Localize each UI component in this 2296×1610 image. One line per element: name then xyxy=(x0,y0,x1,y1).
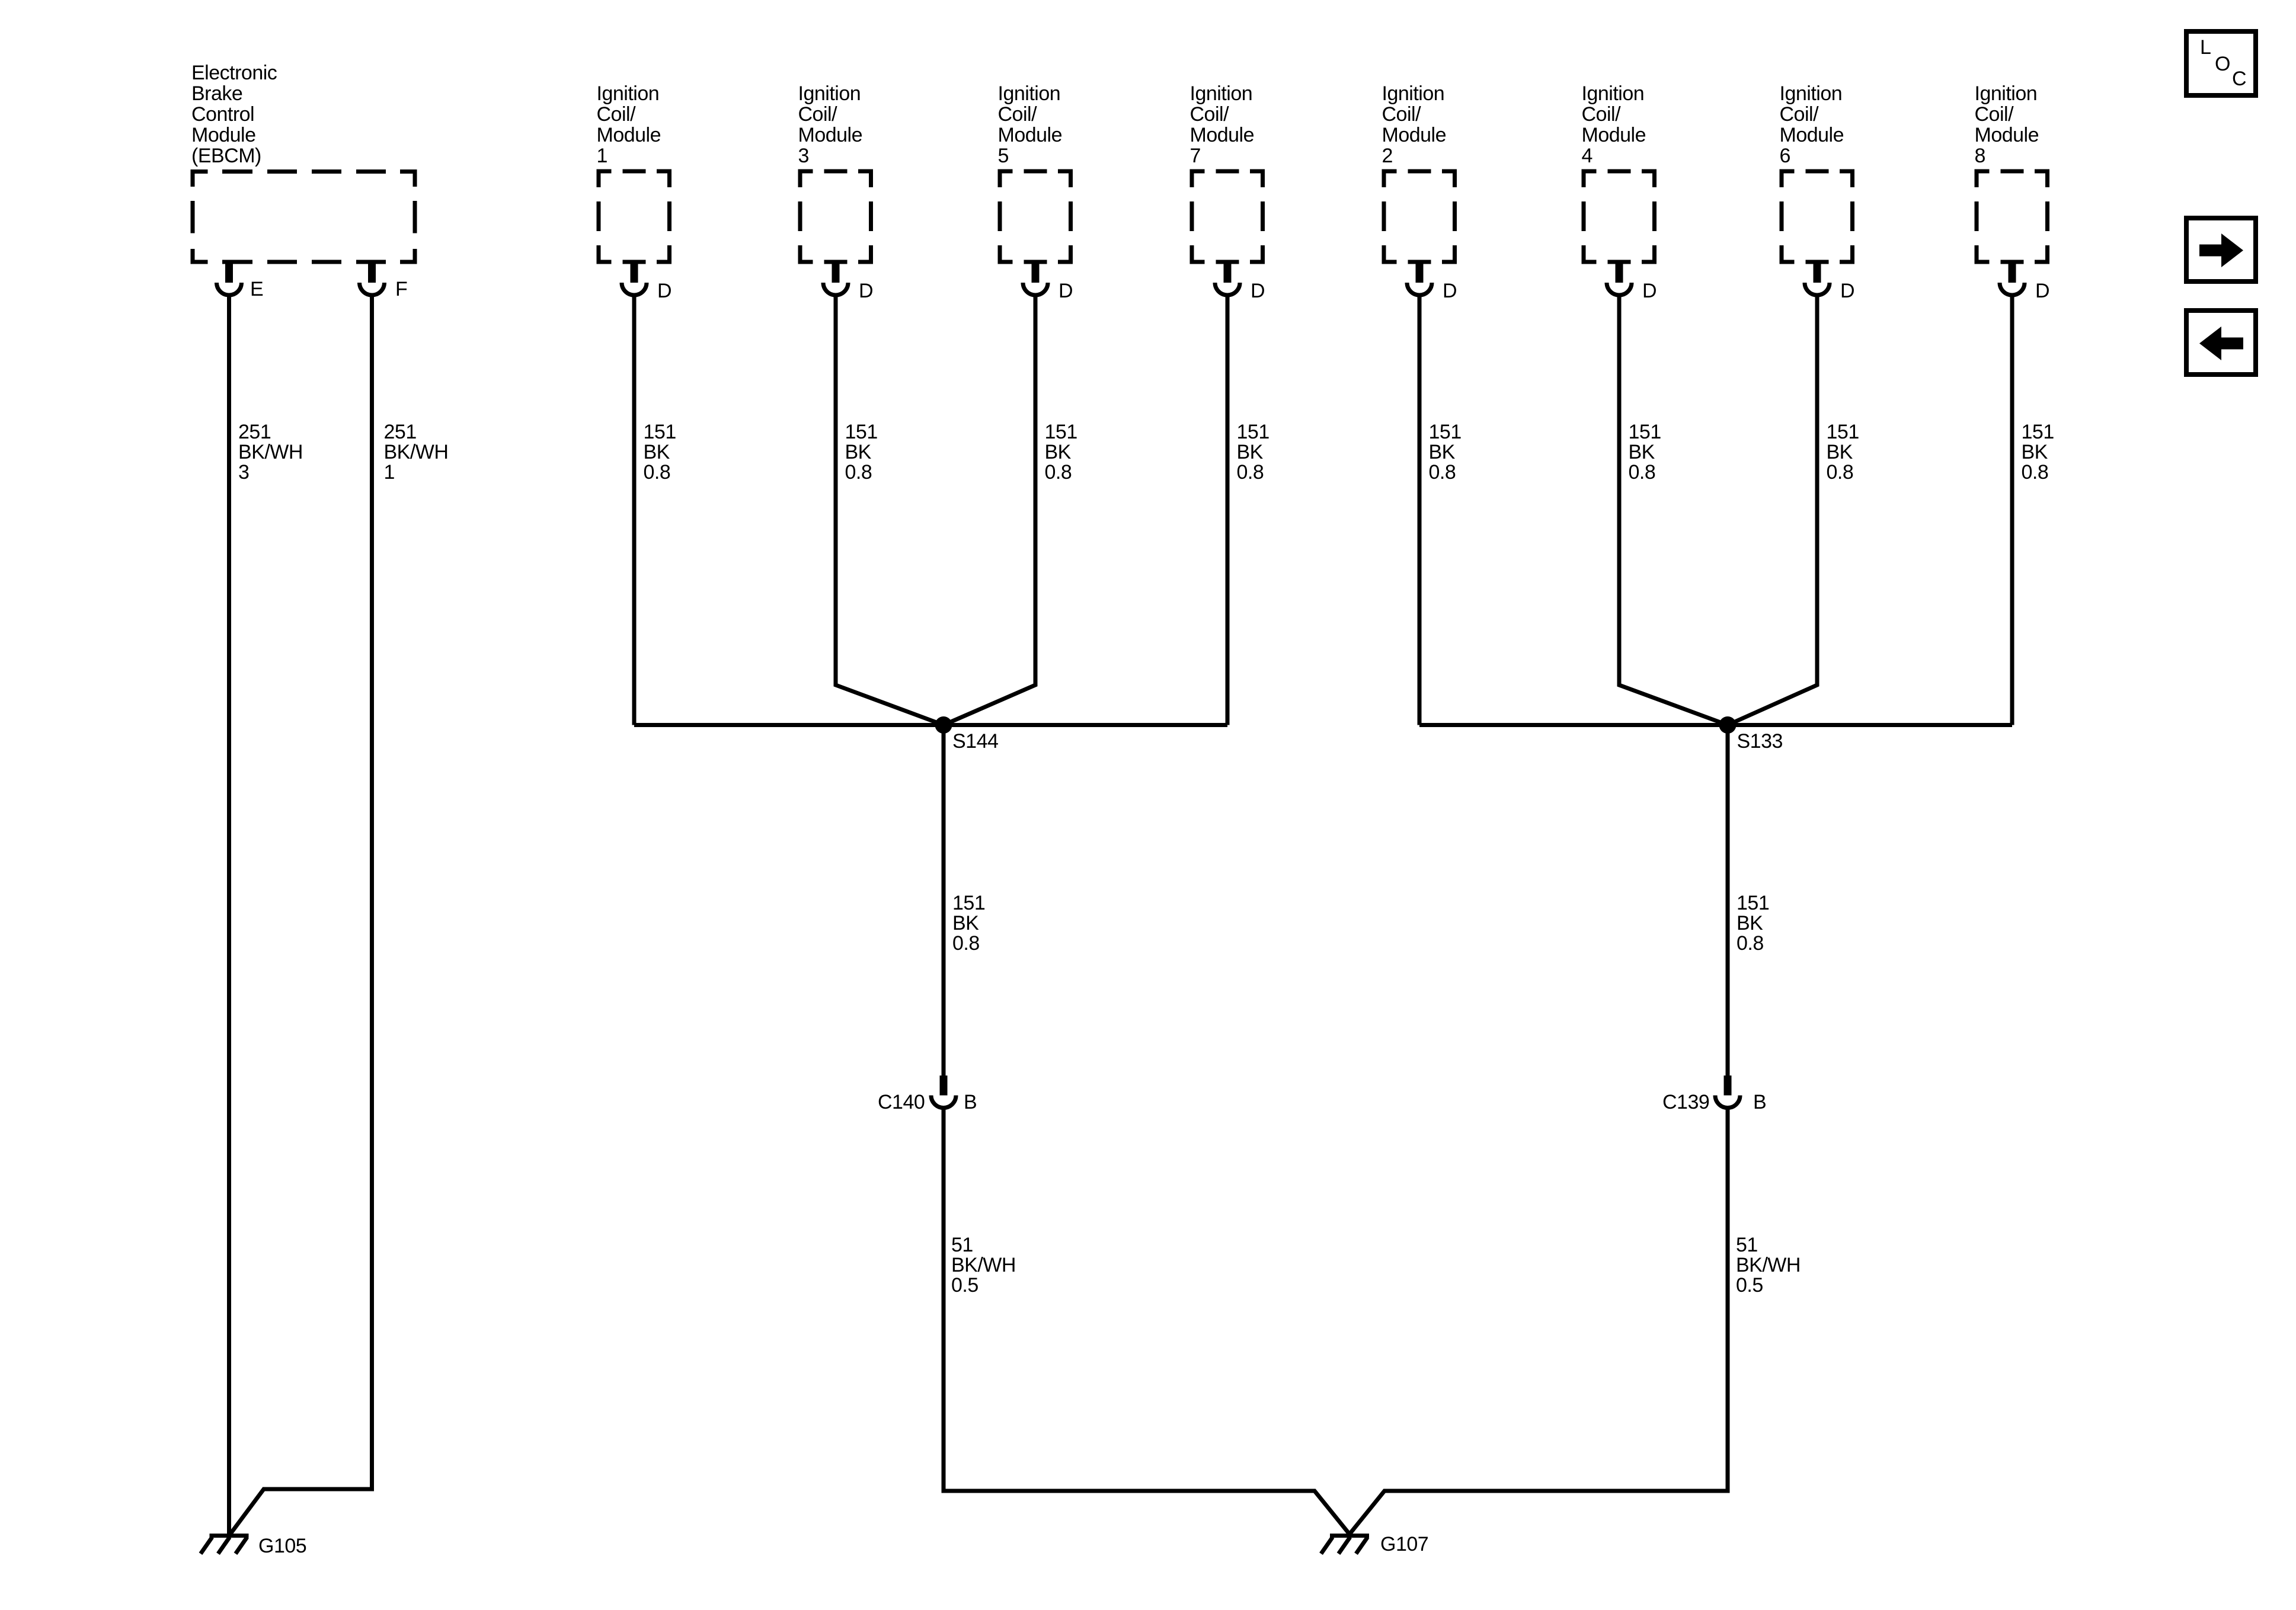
module Ignition Coil/Module 2 dashed box xyxy=(1382,169,1457,264)
wire label 51 BK/WH 0.5 (left) xyxy=(951,1234,1016,1297)
ground G107 symbol xyxy=(1321,1536,1369,1554)
svg-text:51: 51 xyxy=(1736,1234,1758,1256)
svg-text:BK/WH: BK/WH xyxy=(384,441,449,463)
wire 151 BK 0.8 from module 2 pin D xyxy=(1418,296,1422,725)
svg-text:Ignition: Ignition xyxy=(1190,82,1253,105)
wire label 151 BK 0.8 (S133-C139) xyxy=(1737,892,1769,955)
svg-text:C: C xyxy=(2232,68,2246,90)
svg-text:B: B xyxy=(1753,1091,1766,1113)
svg-text:51: 51 xyxy=(951,1234,973,1256)
wire 151 BK 0.8 from module 8 pin D xyxy=(2010,296,2014,725)
svg-text:151: 151 xyxy=(1045,421,1077,443)
svg-text:0.8: 0.8 xyxy=(644,461,671,484)
wire label 251 BK/WH 1 xyxy=(384,421,449,484)
wire label 151 BK 0.8 (module 5) xyxy=(1045,421,1077,484)
right arrow icon xyxy=(2199,233,2243,267)
wire 151 BK 0.8 from module 4 pin D to splice xyxy=(1619,296,1728,725)
svg-text:Ignition: Ignition xyxy=(1582,82,1645,105)
svg-text:2: 2 xyxy=(1382,145,1393,167)
connector C139 pin B xyxy=(1715,1076,1740,1108)
wire 251 BK/WH 1 from EBCM pin F to G105 xyxy=(230,296,372,1535)
wire 151 BK 0.8 from module 3 pin D to splice xyxy=(836,296,944,725)
svg-text:BK: BK xyxy=(845,441,872,463)
connector pin D of module 4 xyxy=(1607,260,1632,296)
svg-text:BK: BK xyxy=(1237,441,1264,463)
svg-text:6: 6 xyxy=(1780,145,1790,167)
svg-text:(EBCM): (EBCM) xyxy=(191,145,261,167)
svg-text:Ignition: Ignition xyxy=(597,82,660,105)
wire label 51 BK/WH 0.5 (right) xyxy=(1736,1234,1801,1297)
svg-text:5: 5 xyxy=(998,145,1009,167)
module Ignition Coil/Module 2 label xyxy=(1382,82,1447,167)
connector pin F xyxy=(360,260,385,296)
wire bus into splice S144 xyxy=(634,723,1227,727)
svg-text:151: 151 xyxy=(1629,421,1661,443)
svg-text:D: D xyxy=(2035,280,2049,302)
module Ignition Coil/Module 3 dashed box xyxy=(798,169,874,264)
svg-text:Coil/: Coil/ xyxy=(1975,103,2014,126)
wire label 151 BK 0.8 (module 1) xyxy=(644,421,676,484)
wire label 151 BK 0.8 (module 4) xyxy=(1629,421,1661,484)
svg-text:Coil/: Coil/ xyxy=(1190,103,1230,126)
svg-text:BK: BK xyxy=(644,441,670,463)
wire 151 BK 0.8 from module 7 pin D xyxy=(1226,296,1230,725)
svg-text:0.8: 0.8 xyxy=(952,932,980,955)
module Ignition Coil/Module 8 label xyxy=(1975,82,2039,167)
connector pin D of module 7 xyxy=(1215,260,1240,296)
connector pin E xyxy=(217,260,242,296)
svg-text:0.5: 0.5 xyxy=(1736,1274,1763,1297)
svg-text:BK: BK xyxy=(1429,441,1456,463)
connector pin D of module 8 xyxy=(2000,260,2025,296)
svg-text:D: D xyxy=(859,280,873,302)
svg-text:C140: C140 xyxy=(878,1091,925,1113)
svg-text:Module: Module xyxy=(798,124,863,146)
svg-text:151: 151 xyxy=(952,892,985,914)
svg-text:S144: S144 xyxy=(952,730,998,753)
svg-text:D: D xyxy=(1443,280,1457,302)
module Ignition Coil/Module 4 label xyxy=(1582,82,1646,167)
svg-text:151: 151 xyxy=(644,421,676,443)
wire bus into splice S133 xyxy=(1419,723,2012,727)
splice S144 junction dot xyxy=(935,716,952,734)
module Ignition Coil/Module 5 dashed box xyxy=(998,169,1073,264)
svg-text:E: E xyxy=(250,278,263,300)
svg-text:BK: BK xyxy=(2022,441,2048,463)
svg-text:Module: Module xyxy=(597,124,661,146)
svg-text:0.8: 0.8 xyxy=(1827,461,1854,484)
svg-text:C139: C139 xyxy=(1662,1091,1709,1113)
svg-text:Module: Module xyxy=(1780,124,1844,146)
svg-text:BK: BK xyxy=(1737,912,1763,934)
LOC legend letters xyxy=(2200,36,2246,90)
svg-text:0.8: 0.8 xyxy=(1629,461,1656,484)
connector pin D of module 1 xyxy=(622,260,647,296)
svg-text:7: 7 xyxy=(1190,145,1201,167)
svg-text:Module: Module xyxy=(1975,124,2039,146)
module Ignition Coil/Module 6 dashed box xyxy=(1780,169,1855,264)
svg-text:151: 151 xyxy=(1237,421,1269,443)
svg-text:0.8: 0.8 xyxy=(1429,461,1456,484)
svg-text:BK: BK xyxy=(1045,441,1072,463)
module EBCM dashed box xyxy=(191,169,417,264)
svg-text:BK: BK xyxy=(1827,441,1853,463)
svg-text:Coil/: Coil/ xyxy=(1582,103,1622,126)
module Ignition Coil/Module 7 dashed box xyxy=(1190,169,1265,264)
module Ignition Coil/Module 8 dashed box xyxy=(1975,169,2050,264)
svg-text:0.8: 0.8 xyxy=(845,461,872,484)
LOC legend box xyxy=(2186,31,2256,95)
svg-text:BK/WH: BK/WH xyxy=(1736,1254,1801,1276)
module Ignition Coil/Module 7 label xyxy=(1190,82,1255,167)
connector pin D of module 5 xyxy=(1023,260,1048,296)
module Ignition Coil/Module 1 label xyxy=(597,82,661,167)
splice S133 junction dot xyxy=(1719,716,1737,734)
wire 151 BK 0.8 from S144 to C140 xyxy=(942,725,946,1076)
svg-text:0.5: 0.5 xyxy=(951,1274,978,1297)
svg-text:0.8: 0.8 xyxy=(1237,461,1264,484)
wire 151 BK 0.8 from module 5 pin D to splice xyxy=(944,296,1035,725)
svg-text:Ignition: Ignition xyxy=(1780,82,1843,105)
svg-text:Electronic: Electronic xyxy=(191,62,277,84)
svg-text:L: L xyxy=(2200,36,2211,59)
svg-text:BK: BK xyxy=(1629,441,1655,463)
svg-text:1: 1 xyxy=(597,145,607,167)
connector pin D of module 6 xyxy=(1805,260,1830,296)
svg-text:251: 251 xyxy=(384,421,417,443)
connector pin D of module 3 xyxy=(823,260,848,296)
svg-text:Control: Control xyxy=(191,103,254,126)
svg-text:151: 151 xyxy=(1429,421,1462,443)
svg-text:Ignition: Ignition xyxy=(1382,82,1445,105)
wire 151 BK 0.8 from module 1 pin D xyxy=(632,296,637,725)
wire label 251 BK/WH 3 xyxy=(238,421,303,484)
svg-text:151: 151 xyxy=(845,421,878,443)
svg-text:8: 8 xyxy=(1975,145,1985,167)
svg-text:Coil/: Coil/ xyxy=(798,103,838,126)
svg-text:1: 1 xyxy=(384,461,395,484)
svg-text:D: D xyxy=(1840,280,1854,302)
svg-text:0.8: 0.8 xyxy=(1045,461,1072,484)
svg-text:Module: Module xyxy=(1190,124,1255,146)
wire label 151 BK 0.8 (module 3) xyxy=(845,421,878,484)
svg-text:Brake: Brake xyxy=(191,82,242,105)
svg-text:Ignition: Ignition xyxy=(798,82,861,105)
module Ignition Coil/Module 3 label xyxy=(798,82,863,167)
wire label 151 BK 0.8 (S144-C140) xyxy=(952,892,985,955)
svg-text:3: 3 xyxy=(798,145,809,167)
svg-text:Ignition: Ignition xyxy=(998,82,1061,105)
svg-text:D: D xyxy=(1251,280,1265,302)
svg-text:0.8: 0.8 xyxy=(2022,461,2049,484)
svg-text:D: D xyxy=(1059,280,1073,302)
wire label 151 BK 0.8 (module 2) xyxy=(1429,421,1462,484)
svg-text:D: D xyxy=(1642,280,1657,302)
svg-text:B: B xyxy=(964,1091,977,1113)
svg-text:3: 3 xyxy=(238,461,249,484)
wire 151 BK 0.8 from S133 to C139 xyxy=(1726,725,1730,1076)
svg-text:Module: Module xyxy=(1382,124,1447,146)
wire label 151 BK 0.8 (module 7) xyxy=(1237,421,1269,484)
svg-text:S133: S133 xyxy=(1737,730,1783,753)
svg-text:Module: Module xyxy=(998,124,1063,146)
module EBCM label xyxy=(191,62,277,167)
svg-text:Coil/: Coil/ xyxy=(597,103,637,126)
module Ignition Coil/Module 6 label xyxy=(1780,82,1844,167)
svg-text:G105: G105 xyxy=(258,1535,306,1557)
svg-text:Module: Module xyxy=(1582,124,1646,146)
module Ignition Coil/Module 4 dashed box xyxy=(1582,169,1657,264)
ground G105 symbol xyxy=(201,1536,249,1554)
svg-text:D: D xyxy=(657,280,671,302)
svg-text:151: 151 xyxy=(1737,892,1769,914)
svg-text:BK/WH: BK/WH xyxy=(238,441,303,463)
svg-text:Ignition: Ignition xyxy=(1975,82,2038,105)
wire 151 BK 0.8 from module 6 pin D to splice xyxy=(1728,296,1817,725)
wire 51 BK/WH 0.5 from C140 to G107 xyxy=(944,1108,1350,1534)
svg-text:Coil/: Coil/ xyxy=(1382,103,1422,126)
module Ignition Coil/Module 1 dashed box xyxy=(597,169,672,264)
svg-text:251: 251 xyxy=(238,421,271,443)
svg-text:0.8: 0.8 xyxy=(1737,932,1764,955)
svg-text:G107: G107 xyxy=(1380,1533,1428,1555)
svg-text:Coil/: Coil/ xyxy=(1780,103,1819,126)
svg-text:151: 151 xyxy=(2022,421,2054,443)
svg-text:Module: Module xyxy=(191,124,256,146)
module Ignition Coil/Module 5 label xyxy=(998,82,1063,167)
svg-text:BK/WH: BK/WH xyxy=(951,1254,1016,1276)
wire label 151 BK 0.8 (module 8) xyxy=(2022,421,2054,484)
svg-text:151: 151 xyxy=(1827,421,1859,443)
svg-text:4: 4 xyxy=(1582,145,1593,167)
wire 251 BK/WH 3 from EBCM pin E to G105 xyxy=(227,296,231,1534)
svg-text:Coil/: Coil/ xyxy=(998,103,1038,126)
arrow box (left) xyxy=(2186,311,2256,375)
wire label 151 BK 0.8 (module 6) xyxy=(1827,421,1859,484)
svg-text:BK: BK xyxy=(952,912,979,934)
svg-text:O: O xyxy=(2215,53,2230,75)
connector pin D of module 2 xyxy=(1407,260,1432,296)
wire 51 BK/WH 0.5 from C139 to G107 xyxy=(1350,1108,1728,1534)
left arrow icon xyxy=(2199,327,2243,360)
arrow box (right) xyxy=(2186,218,2256,281)
svg-text:F: F xyxy=(395,278,407,300)
connector C140 pin B xyxy=(931,1076,956,1108)
